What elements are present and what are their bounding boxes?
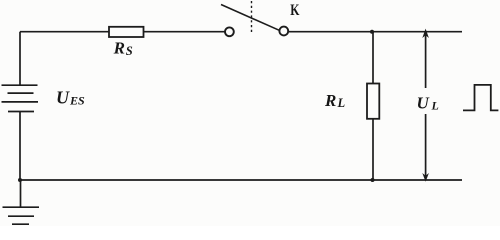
svg-text:R: R (324, 91, 336, 110)
junction: bottom-left at ground tap (18, 178, 22, 182)
ground (3, 180, 40, 224)
battery U_ES (2, 85, 39, 111)
wire: top-left horizontal from battery corner to R_S (20, 31, 109, 33)
switch K contact right (279, 27, 288, 36)
junction: bottom of R_L branch (371, 178, 375, 182)
label U_L (417, 94, 439, 113)
wire: R_L branch lower (372, 119, 374, 180)
wire: R_S to switch left contact (144, 31, 226, 33)
wire: bottom rail (20, 179, 462, 181)
label R_S (113, 39, 133, 58)
svg-text:U: U (417, 94, 430, 113)
svg-text:S: S (126, 44, 133, 58)
svg-text:K: K (290, 2, 299, 19)
resistor R_S (109, 27, 144, 37)
wire: battery to bottom rail (19, 112, 21, 181)
wire: left vertical from top wire to battery (19, 32, 21, 85)
wire: switch to top-right end (288, 31, 462, 33)
svg-text:R: R (113, 39, 125, 58)
switch K blade (221, 5, 279, 31)
svg-text:L: L (431, 99, 439, 113)
junction: top of R_L branch (370, 30, 374, 34)
arrow U_L (double-headed voltage arrow) (422, 29, 429, 182)
label U_ES (56, 88, 85, 108)
svg-text:L: L (337, 96, 346, 110)
pulse waveform symbol (463, 85, 498, 111)
switch K contact left (225, 27, 234, 36)
switch K dashed actuation line (251, 1, 253, 33)
label K (290, 2, 299, 19)
svg-text:U: U (56, 88, 70, 108)
wire: R_L branch upper (372, 32, 374, 84)
label R_L (324, 91, 346, 110)
svg-text:ES: ES (69, 94, 85, 108)
resistor R_L (367, 84, 379, 119)
